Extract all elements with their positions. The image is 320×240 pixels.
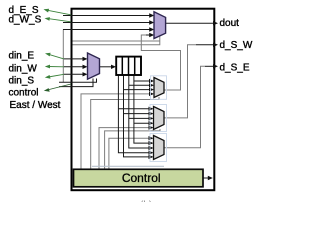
svg-text:Control: Control <box>122 171 161 185</box>
svg-text:(b): (b) <box>140 200 152 202</box>
svg-text:d_S_W: d_S_W <box>220 40 253 51</box>
svg-text:control: control <box>9 88 39 99</box>
svg-text:East / West: East / West <box>10 100 61 111</box>
svg-text:din_S: din_S <box>9 75 35 86</box>
svg-text:din_W: din_W <box>9 63 38 74</box>
svg-text:dout: dout <box>220 18 240 29</box>
svg-text:din_E: din_E <box>9 51 35 62</box>
svg-text:d_S_E: d_S_E <box>220 63 250 74</box>
svg-text:d_W_S: d_W_S <box>9 14 42 25</box>
